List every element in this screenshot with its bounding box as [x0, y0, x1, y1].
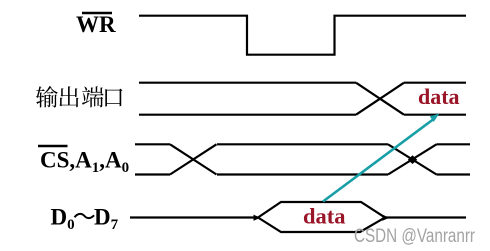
svg-text:data: data: [303, 204, 346, 229]
svg-text:D7: D7: [94, 205, 119, 234]
svg-text:D0: D0: [51, 205, 75, 234]
svg-text:CSDN @Vanranrr: CSDN @Vanranrr: [354, 226, 476, 247]
svg-text:WR: WR: [76, 12, 116, 37]
svg-text:CS,A1,A0: CS,A1,A0: [40, 148, 129, 177]
svg-text:data: data: [418, 84, 460, 109]
